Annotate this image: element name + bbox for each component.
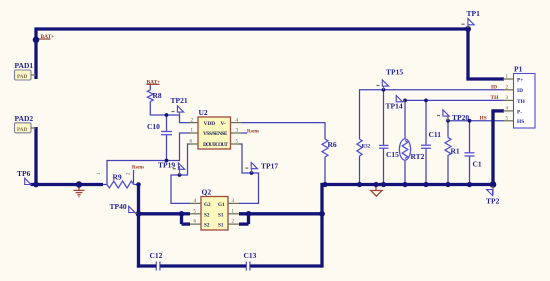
pin U2.2: [189, 122, 199, 124]
pin U2.4: [231, 122, 242, 124]
pin TP19: [179, 166, 181, 175]
wire BAT+ left vertical to PAD1: [34, 27, 37, 79]
value Q2 G1: [218, 202, 225, 208]
pin number Q2.2: [232, 220, 235, 225]
pin TP40: [135, 212, 137, 213]
wire S1 rail to right vertical: [239, 212, 322, 215]
svg-text:C12: C12: [150, 251, 163, 260]
junction TP2 corner: [490, 181, 497, 188]
svg-text:P-: P-: [517, 109, 522, 115]
wire C11 bottom to rail: [425, 148, 427, 184]
svg-text:S1: S1: [218, 212, 224, 218]
svg-text:TP14: TP14: [386, 102, 403, 111]
svg-text:BAT+: BAT+: [41, 34, 55, 40]
wire P- vertical: [491, 111, 494, 186]
test point TP19 triangle: [173, 163, 185, 169]
pin TP1: [467, 25, 469, 28]
ground left: [74, 186, 85, 197]
pin Q2.4: [190, 202, 201, 204]
wire R32 bottom to rail: [359, 156, 361, 185]
junction R32 at mid rail: [357, 182, 362, 187]
value P1 HS: [517, 119, 524, 125]
svg-text:R6: R6: [328, 140, 337, 149]
svg-text:R9: R9: [113, 173, 122, 182]
test point TP40 triangle: [129, 206, 135, 212]
pin number U2.5: [236, 140, 239, 145]
wire RT2 bottom to rail: [404, 160, 406, 185]
wire R1 bottom to rail: [447, 159, 449, 185]
wire R9 left pin stub: [103, 184, 108, 186]
pin U2.5: [231, 143, 242, 145]
junction left ground: [76, 181, 82, 187]
label C15: [386, 150, 399, 159]
wire C1 bottom to rail: [469, 156, 471, 184]
svg-text:S2: S2: [204, 212, 210, 218]
svg-text:HS: HS: [480, 116, 487, 122]
junction RT2 at mid rail: [402, 182, 407, 187]
junction C11 at TH net: [424, 99, 428, 103]
test point TP20 triangle: [437, 110, 449, 116]
pin number Q2.6: [194, 220, 197, 225]
thermistor RT2: [399, 139, 410, 160]
wire VDD rail from R8 to U2 pin 2: [150, 102, 190, 123]
value U2 DOUT/COUT: [203, 142, 228, 148]
pin TP14: [403, 100, 406, 101]
svg-text:RT2: RT2: [411, 152, 425, 161]
pin number P1.3: [506, 96, 509, 101]
pin Q2.5: [190, 213, 201, 215]
test point TP15 triangle: [377, 80, 389, 86]
label PAD2: [15, 114, 34, 123]
junction ground at mid rail: [373, 182, 378, 187]
svg-text:TH: TH: [491, 95, 500, 101]
pin P1.5: [503, 120, 514, 122]
svg-text:PAD1: PAD1: [15, 61, 34, 70]
value P1 ID: [517, 88, 523, 94]
value U2 VDD: [204, 121, 216, 127]
pin PAD2: [31, 127, 36, 129]
svg-text:TP19: TP19: [158, 161, 175, 170]
connector P1 body: [514, 74, 536, 129]
wire TP1 vertical: [466, 27, 469, 79]
wire R9 right pin to thick node: [134, 184, 139, 186]
junction S2 step: [179, 211, 185, 217]
pad PAD1 body: [15, 70, 32, 80]
pin number U2.4: [236, 118, 239, 123]
capacitor C11: [421, 145, 431, 148]
wire S2 pin 5 horizontal: [182, 212, 191, 215]
pin U2.6: [189, 143, 199, 145]
junction C11 at mid rail: [423, 182, 428, 187]
wire bottom rail right segment: [250, 264, 322, 267]
svg-text:R8: R8: [153, 91, 162, 100]
wire TP15 / C15 vertical: [383, 90, 385, 145]
junction R9 to vertical: [136, 182, 141, 187]
pin number Q2.3: [232, 199, 235, 204]
wire U2 pin5 to TP17 to Q2 gate G1: [239, 144, 259, 203]
svg-text:C13: C13: [244, 251, 257, 260]
svg-text:R32: R32: [362, 145, 371, 150]
svg-text:HS: HS: [517, 119, 524, 125]
value P1 P+: [517, 78, 523, 84]
net label BAT+ at R8: [147, 79, 161, 85]
pin number U2.1: [191, 129, 194, 134]
wire P- horizontal to P1 pin 4: [491, 109, 504, 112]
capacitor C13: [246, 262, 250, 271]
value Q2 S1 top: [218, 212, 224, 218]
svg-text:U2: U2: [199, 108, 208, 117]
resistor R32: [357, 139, 362, 156]
test point TP1 triangle: [462, 19, 475, 25]
pin number R9.1: [97, 172, 102, 175]
value Q2 G2: [204, 202, 211, 208]
junction TP19 at DOUT net: [178, 173, 182, 177]
svg-text:C10: C10: [147, 122, 160, 131]
wire right vertical from bottom rail to mid rail: [320, 183, 323, 268]
label R32: [362, 145, 371, 150]
wire C1 top: [469, 121, 471, 153]
wire TH net horizontal to P1 pin 3: [405, 100, 504, 139]
pin P1.1: [503, 78, 514, 80]
value Q2 S1 bottom: [218, 223, 224, 229]
pin number R9.2: [127, 172, 132, 175]
junction C10 at sense net: [165, 159, 169, 163]
junction C1 at mid rail: [467, 182, 472, 187]
wire C11 top: [425, 100, 427, 145]
wire C15 bottom to rail: [383, 148, 385, 184]
wire ID net horizontal to P1 pin 2: [360, 90, 505, 139]
pin Q2.1: [228, 213, 239, 215]
junction C15 at mid rail: [381, 182, 386, 187]
pin TP2: [492, 186, 494, 195]
pin P1.3: [503, 99, 514, 101]
wire BAT+ stem into R8: [149, 85, 151, 91]
label C13: [244, 251, 257, 260]
pin P1.2: [503, 89, 514, 91]
pin PAD1: [31, 74, 36, 76]
capacitor C15: [379, 145, 389, 148]
svg-text:TP40: TP40: [110, 202, 127, 211]
junction TP1 corner: [465, 26, 471, 32]
wire HS net horizontal to P1 pin 5: [448, 120, 504, 122]
pin TP15: [383, 86, 385, 90]
wire U2 pin3 Rsens stub: [241, 132, 247, 134]
svg-text:S1: S1: [218, 223, 224, 229]
wire S2 step vertical: [180, 212, 183, 224]
junction PAD2 at ground rail: [33, 182, 39, 188]
wire bottom rail middle segment: [160, 264, 246, 267]
net label Rsens at U2.3: [247, 130, 259, 135]
pin U2.1: [189, 132, 199, 134]
label TP15: [386, 68, 403, 77]
pin number P1.5: [506, 117, 509, 122]
net label Rsens at R9: [132, 166, 144, 171]
test point TP21 triangle: [172, 106, 184, 112]
value P1 TH: [517, 99, 526, 105]
junction TP14/RT2 at TH net: [403, 99, 407, 103]
pin P1.4: [503, 110, 514, 112]
svg-text:VSS/SENSE: VSS/SENSE: [203, 131, 228, 137]
wire TP40 horizontal to Q2 S2: [139, 212, 182, 215]
svg-text:BAT+: BAT+: [147, 79, 161, 85]
pin number U2.2: [191, 118, 194, 123]
junction TP17: [250, 171, 254, 175]
svg-text:P+: P+: [517, 78, 523, 84]
label R8: [153, 91, 162, 100]
wire bottom rail left segment: [137, 264, 156, 267]
pin TP21: [179, 112, 181, 115]
wire TP6 ground rail: [31, 183, 104, 186]
pin number P1.1: [506, 75, 509, 80]
wire S1 step vertical: [247, 212, 250, 224]
label C11: [429, 130, 442, 139]
value Q2 S2 top: [204, 212, 210, 218]
pin Q2.2: [228, 223, 239, 225]
junction BAT+ power port: [33, 37, 40, 44]
pin TP17: [251, 169, 253, 173]
value Q2 S2 bottom: [204, 223, 210, 229]
pin number P1.2: [506, 86, 509, 91]
label U2: [199, 108, 208, 117]
svg-text:TP1: TP1: [467, 9, 481, 18]
svg-text:TP20: TP20: [452, 113, 469, 122]
wire C10 top: [166, 115, 168, 131]
test point TP17 triangle: [245, 162, 257, 168]
wire R6 bottom to rail: [324, 157, 326, 185]
svg-text:TP6: TP6: [17, 169, 31, 178]
test point TP14 triangle: [396, 96, 402, 102]
svg-text:ID: ID: [517, 88, 523, 94]
junction C10 at VDD rail: [165, 113, 169, 117]
resistor R8: [147, 90, 153, 102]
test point TP6 triangle: [25, 178, 31, 184]
pin number Q2.4: [194, 199, 197, 204]
pin TP20: [447, 116, 449, 121]
pin Q2.3: [228, 202, 239, 204]
label RT2: [411, 152, 425, 161]
svg-text:Q2: Q2: [202, 188, 212, 197]
svg-text:TH: TH: [517, 99, 526, 105]
label TP6: [17, 169, 31, 178]
pin U2.3: [231, 132, 242, 134]
label TP17: [261, 162, 278, 171]
pin number P1.4: [506, 107, 509, 112]
label C12: [150, 251, 163, 260]
wire U2 pin4 V- to R6: [241, 123, 325, 140]
wire C10 bottom to sense net: [166, 135, 168, 161]
value U2 V-: [221, 121, 226, 127]
label TP21: [171, 96, 188, 105]
label PAD1: [15, 61, 34, 70]
label TP2: [486, 197, 500, 206]
label TP19: [158, 161, 175, 170]
label Q2: [202, 188, 212, 197]
junction TP40: [136, 211, 142, 217]
label TP40: [110, 202, 127, 211]
label TP14: [386, 102, 403, 111]
value P1 P-: [517, 109, 522, 115]
wire P+ horizontal to P1 pin 1: [466, 77, 504, 80]
svg-text:VDD: VDD: [204, 121, 216, 127]
wire DOUT net U2 pin6 to TP19 and Q2 gate G2: [171, 144, 190, 203]
svg-text:G1: G1: [218, 202, 225, 208]
pin number Q2.1: [232, 209, 235, 214]
capacitor C10: [161, 132, 172, 135]
label R9: [113, 173, 122, 182]
pin number Q2.5: [194, 209, 197, 214]
svg-text:ID: ID: [491, 85, 497, 91]
svg-text:S2: S2: [204, 223, 210, 229]
label R6: [328, 140, 337, 149]
svg-text:DOUT/COUT: DOUT/COUT: [203, 142, 228, 148]
svg-text:TP2: TP2: [486, 197, 500, 206]
label C1: [473, 160, 482, 169]
pin Q2.6: [190, 223, 201, 225]
junction S1 at right vertical: [319, 211, 325, 217]
value PAD2: [17, 127, 28, 133]
label P1: [514, 65, 523, 74]
label TP20: [452, 113, 469, 122]
svg-text:PAD: PAD: [17, 74, 28, 80]
junction TP15/C15 at ID net: [382, 88, 386, 92]
wire R9 output vertical: [137, 184, 140, 268]
test point TP2 triangle: [487, 190, 493, 196]
pad PAD2 body: [15, 123, 32, 133]
pin number U2.6: [190, 140, 193, 145]
svg-text:PAD2: PAD2: [15, 114, 34, 123]
net label TH: [491, 95, 500, 101]
ground right (earth triangle): [371, 186, 382, 196]
junction C1 at HS net: [468, 119, 472, 123]
wire S2 pin 6 horizontal: [182, 222, 191, 225]
capacitor C1: [465, 153, 475, 156]
resistor R1: [445, 138, 451, 159]
junction TP20/R1 at HS net: [446, 119, 450, 123]
junction R6 at mid rail: [322, 182, 327, 187]
svg-text:PAD: PAD: [17, 127, 28, 133]
junction R1 at mid rail: [445, 182, 450, 187]
wire S1 pin 2 horizontal: [239, 222, 249, 225]
svg-text:G2: G2: [204, 202, 211, 208]
wire PAD2 vertical to ground rail: [34, 127, 37, 185]
svg-text:C11: C11: [429, 130, 442, 139]
label R1: [451, 147, 460, 156]
svg-text:TP21: TP21: [171, 96, 188, 105]
label TP1: [467, 9, 481, 18]
net label BAT+ top-left: [41, 34, 55, 40]
junction S1 step: [246, 211, 252, 217]
svg-text:C1: C1: [473, 160, 482, 169]
wire BAT+ top rail: [36, 27, 468, 30]
label C10: [147, 122, 160, 131]
svg-text:Rsens: Rsens: [132, 166, 144, 171]
svg-text:TP17: TP17: [261, 162, 278, 171]
net label HS: [480, 116, 487, 122]
value PAD1: [17, 74, 28, 80]
wire Rsens stub above R9 pin 2: [133, 170, 135, 185]
wire R1 top: [447, 121, 449, 138]
pin number U2.3: [236, 129, 239, 134]
wire mid ground rail: [322, 183, 493, 186]
power port BAT+ at top-left: [37, 38, 51, 40]
svg-text:C15: C15: [386, 150, 399, 159]
op-amp U2 body: [198, 117, 231, 149]
svg-text:P1: P1: [514, 65, 523, 74]
net label ID: [491, 85, 497, 91]
value U2 VSS/SENSE: [203, 131, 228, 137]
transistor Q2 body: [201, 197, 228, 231]
power port BAT+ above R8: [147, 83, 160, 85]
svg-text:R1: R1: [451, 147, 460, 156]
svg-text:Rsens: Rsens: [247, 130, 259, 135]
resistor R6: [322, 139, 328, 157]
svg-text:V-: V-: [221, 121, 226, 127]
capacitor C12: [156, 262, 160, 271]
resistor R9: [107, 181, 134, 188]
wire sense net (R9 pin1 - C10 - U2 pin1): [107, 133, 190, 185]
svg-text:TP15: TP15: [386, 68, 403, 77]
